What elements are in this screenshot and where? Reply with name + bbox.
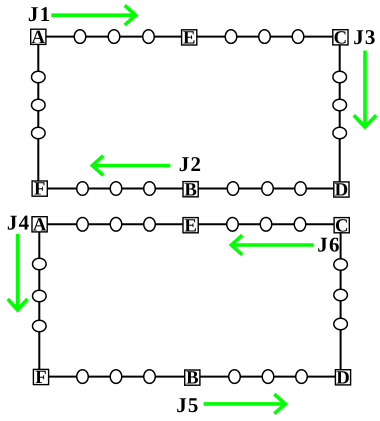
element loop1 segment F-B #2 <box>110 182 122 196</box>
svg-text:J5: J5 <box>176 393 199 417</box>
svg-text:E: E <box>183 28 195 49</box>
element loop2 segment A-F #2 <box>33 290 47 302</box>
element loop2 segment A-F #3 <box>33 320 47 332</box>
element loop2 segment F-B #2 <box>110 370 122 384</box>
node F (loop2) <box>33 369 48 384</box>
node E (loop1) <box>182 30 197 45</box>
node A (loop2) <box>32 217 47 232</box>
element loop2 segment C-D #1 <box>334 259 348 271</box>
element loop2 segment E-C #3 <box>294 218 306 232</box>
element loop1 segment B-D #3 <box>295 182 307 196</box>
element loop1 segment C-D #2 <box>333 99 347 111</box>
wire loop2 left (A to F) <box>38 224 40 376</box>
current arrow J4 (downwards) <box>16 234 20 310</box>
element loop1 segment A-F #3 <box>32 127 46 139</box>
element loop1 segment A-E #2 <box>108 30 120 44</box>
svg-text:J1: J1 <box>28 2 51 26</box>
element loop1 segment C-D #3 <box>333 127 347 139</box>
svg-text:D: D <box>336 367 350 388</box>
element loop2 segment A-E #2 <box>110 218 122 232</box>
element loop1 segment F-B #3 <box>144 182 156 196</box>
svg-text:F: F <box>34 179 45 200</box>
svg-text:J2: J2 <box>179 152 202 176</box>
element loop1 segment C-D #1 <box>333 71 347 83</box>
node B (loop1) <box>183 182 198 197</box>
node E (loop2) <box>183 218 198 233</box>
element loop2 segment A-F #1 <box>33 258 47 270</box>
svg-text:C: C <box>334 27 348 48</box>
element loop1 segment A-E #3 <box>143 30 155 44</box>
element loop1 segment E-C #2 <box>259 30 271 44</box>
svg-text:B: B <box>184 179 196 200</box>
svg-text:J3: J3 <box>353 25 376 49</box>
node A (loop1) <box>31 29 46 44</box>
element loop2 segment B-D #2 <box>262 370 274 384</box>
wire loop1 top (A to C through E) <box>38 36 339 38</box>
svg-text:F: F <box>35 367 46 388</box>
node D (loop2) <box>335 370 350 385</box>
svg-text:A: A <box>33 214 47 235</box>
current arrow J1 (rightwards) <box>51 13 135 17</box>
svg-text:D: D <box>335 180 349 201</box>
wire loop2 right (C to D) <box>340 224 342 376</box>
element loop1 segment A-F #2 <box>32 99 46 111</box>
element loop1 segment E-C #1 <box>225 30 237 44</box>
wire loop1 right (C to D) <box>339 37 341 189</box>
element loop2 segment C-D #2 <box>334 289 348 301</box>
element loop1 segment B-D #1 <box>227 182 239 196</box>
svg-text:J6: J6 <box>317 232 340 256</box>
node C (loop1) <box>333 30 348 45</box>
element loop1 segment E-C #3 <box>292 30 304 44</box>
element loop1 segment A-E #1 <box>74 30 86 44</box>
element loop1 segment A-F #1 <box>32 71 46 83</box>
wire loop1 bottom (F to D through B) <box>38 188 339 190</box>
svg-text:E: E <box>184 215 196 236</box>
element loop2 segment E-C #1 <box>227 218 239 232</box>
current arrow J6 (leftwards) <box>231 243 313 247</box>
node C (loop2) <box>334 218 349 233</box>
current arrow J2 (leftwards) <box>92 164 170 168</box>
element loop2 segment F-B #1 <box>77 370 89 384</box>
wire loop2 bottom (F to D through B) <box>39 376 340 378</box>
node F (loop1) <box>32 181 47 196</box>
svg-text:A: A <box>32 27 46 48</box>
current arrow J3 (downwards) <box>363 51 367 128</box>
element loop1 segment F-B #1 <box>77 182 89 196</box>
element loop2 segment F-B #3 <box>144 370 156 384</box>
element loop2 segment E-C #2 <box>260 218 272 232</box>
svg-text:J4: J4 <box>7 211 30 235</box>
current arrow J5 (rightwards) <box>204 402 286 406</box>
element loop2 segment B-D #1 <box>229 370 241 384</box>
wire loop2 top (A to C through E) <box>39 223 340 225</box>
node D (loop1) <box>334 182 349 197</box>
element loop2 segment C-D #3 <box>334 318 348 330</box>
element loop2 segment B-D #3 <box>296 370 308 384</box>
node B (loop2) <box>185 370 200 385</box>
element loop2 segment A-E #1 <box>77 218 89 232</box>
wire loop1 left (A to F) <box>37 37 39 189</box>
svg-text:B: B <box>186 368 198 389</box>
element loop1 segment B-D #2 <box>262 182 274 196</box>
element loop2 segment A-E #3 <box>144 218 156 232</box>
